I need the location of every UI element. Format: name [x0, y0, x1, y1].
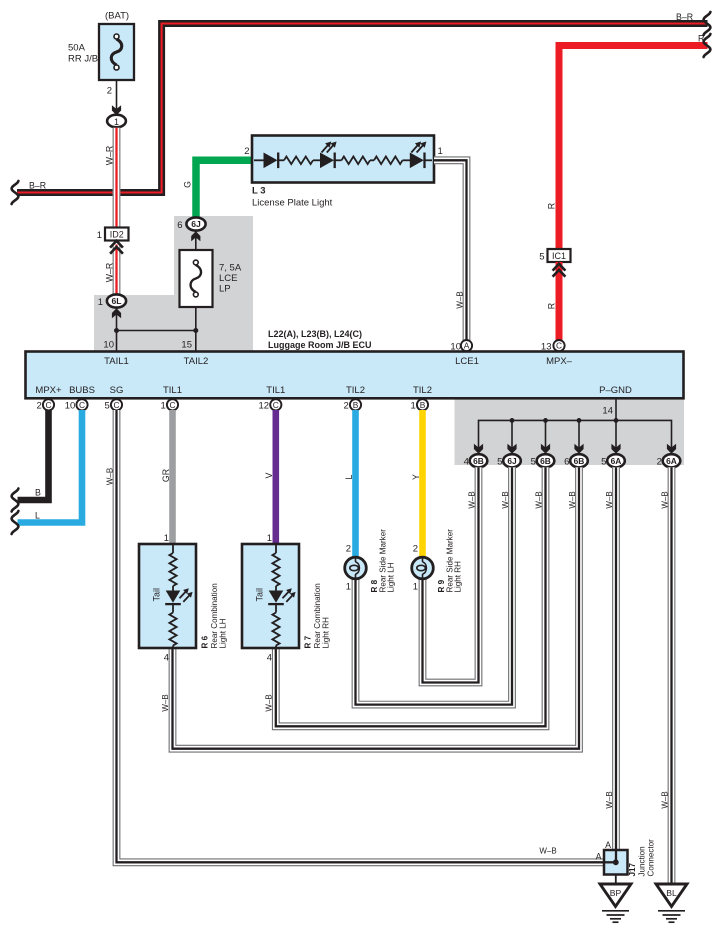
svg-text:2: 2: [344, 401, 349, 412]
svg-text:BUBS: BUBS: [69, 385, 95, 396]
svg-text:A: A: [605, 840, 611, 850]
svg-text:R: R: [698, 34, 704, 44]
svg-text:W–B: W–B: [501, 491, 510, 508]
svg-text:R 6: R 6: [201, 635, 210, 648]
svg-text:L: L: [344, 474, 354, 479]
svg-text:TIL2: TIL2: [413, 385, 432, 396]
svg-text:2: 2: [657, 457, 662, 468]
svg-text:W–B: W–B: [605, 491, 614, 508]
svg-text:10: 10: [103, 340, 114, 351]
svg-text:2: 2: [244, 146, 249, 157]
svg-text:LP: LP: [219, 284, 231, 295]
svg-text:Connector: Connector: [647, 839, 656, 877]
svg-text:1: 1: [164, 533, 169, 544]
svg-text:C: C: [273, 400, 279, 410]
svg-text:6L: 6L: [111, 296, 121, 306]
svg-text:6A: 6A: [666, 456, 677, 466]
svg-text:TIL2: TIL2: [346, 385, 365, 396]
svg-text:IC1: IC1: [552, 251, 566, 261]
svg-text:12: 12: [259, 401, 270, 412]
svg-text:W–B: W–B: [605, 791, 614, 808]
svg-text:BP: BP: [610, 888, 622, 898]
svg-text:50A: 50A: [68, 43, 86, 54]
svg-text:ID2: ID2: [110, 229, 124, 239]
svg-text:1: 1: [98, 297, 103, 308]
svg-text:C: C: [169, 400, 175, 410]
svg-text:R: R: [547, 303, 557, 309]
svg-text:W–B: W–B: [455, 291, 464, 308]
svg-text:L22(A), L23(B), L24(C): L22(A), L23(B), L24(C): [268, 329, 362, 339]
svg-text:1: 1: [411, 401, 416, 412]
svg-text:5: 5: [531, 457, 536, 468]
svg-text:W–B: W–B: [467, 491, 476, 508]
svg-text:Junction: Junction: [638, 846, 647, 876]
svg-text:5: 5: [601, 457, 606, 468]
svg-text:B–R: B–R: [29, 181, 46, 191]
svg-text:10: 10: [65, 401, 76, 412]
svg-text:7, 5A: 7, 5A: [219, 263, 242, 274]
svg-text:6B: 6B: [540, 456, 551, 466]
svg-text:LCE1: LCE1: [455, 356, 479, 367]
svg-text:Tail: Tail: [255, 588, 265, 602]
svg-text:1: 1: [267, 533, 272, 544]
svg-text:W–R: W–R: [105, 263, 115, 283]
svg-text:BL: BL: [666, 888, 677, 898]
svg-text:C: C: [556, 341, 562, 351]
svg-text:W–R: W–R: [105, 146, 115, 166]
svg-text:4: 4: [464, 457, 469, 468]
svg-text:J17: J17: [628, 862, 637, 876]
svg-text:6J: 6J: [191, 219, 201, 229]
svg-text:B: B: [35, 488, 41, 498]
svg-text:MPX+: MPX+: [35, 385, 62, 396]
svg-text:6J: 6J: [507, 456, 517, 466]
svg-text:W–B: W–B: [568, 491, 577, 508]
svg-text:L: L: [35, 511, 40, 521]
svg-text:W–B: W–B: [660, 491, 669, 508]
svg-text:5: 5: [105, 401, 110, 412]
svg-text:W–B: W–B: [534, 491, 543, 508]
svg-text:6A: 6A: [611, 456, 622, 466]
svg-text:TAIL1: TAIL1: [104, 356, 129, 367]
svg-text:15: 15: [181, 340, 192, 351]
svg-text:Light LH: Light LH: [387, 562, 396, 592]
svg-text:C: C: [45, 400, 51, 410]
svg-text:W–B: W–B: [660, 791, 669, 808]
svg-text:1: 1: [438, 146, 443, 157]
svg-text:B: B: [353, 400, 359, 410]
svg-text:1: 1: [346, 582, 351, 593]
svg-text:License Plate Light: License Plate Light: [252, 198, 333, 209]
svg-text:B–R: B–R: [676, 12, 693, 22]
svg-text:6: 6: [177, 220, 182, 231]
svg-text:1: 1: [97, 230, 102, 241]
svg-text:V: V: [264, 472, 274, 478]
svg-text:L 3: L 3: [252, 186, 266, 197]
svg-text:6B: 6B: [574, 456, 585, 466]
svg-text:Tail: Tail: [152, 588, 162, 602]
svg-text:4: 4: [267, 653, 272, 664]
svg-text:A: A: [464, 341, 470, 351]
svg-text:LCE: LCE: [219, 273, 237, 284]
svg-text:5: 5: [539, 252, 544, 263]
svg-text:5: 5: [497, 457, 502, 468]
svg-text:2: 2: [413, 544, 418, 555]
svg-text:SG: SG: [110, 385, 124, 396]
svg-text:Luggage Room J/B ECU: Luggage Room J/B ECU: [268, 340, 372, 350]
svg-text:A: A: [596, 851, 602, 861]
svg-text:RR J/B: RR J/B: [68, 54, 98, 65]
svg-text:14: 14: [602, 406, 613, 417]
svg-text:R 7: R 7: [304, 635, 313, 648]
svg-text:P–GND: P–GND: [599, 385, 632, 396]
svg-text:TAIL2: TAIL2: [184, 356, 209, 367]
svg-text:2: 2: [346, 544, 351, 555]
svg-text:C: C: [79, 400, 85, 410]
svg-text:Light RH: Light RH: [454, 561, 463, 593]
svg-text:Light LH: Light LH: [219, 618, 228, 648]
svg-text:6: 6: [564, 457, 569, 468]
svg-text:G: G: [183, 181, 193, 188]
svg-text:W–B: W–B: [265, 694, 274, 711]
svg-text:1: 1: [161, 401, 166, 412]
svg-text:R: R: [547, 203, 557, 209]
svg-text:W–B: W–B: [105, 468, 114, 485]
svg-text:MPX–: MPX–: [546, 356, 573, 367]
svg-text:TIL1: TIL1: [266, 385, 285, 396]
svg-text:4: 4: [164, 653, 169, 664]
svg-text:1: 1: [114, 117, 119, 127]
svg-text:W–B: W–B: [539, 846, 556, 855]
svg-text:(BAT): (BAT): [105, 11, 129, 22]
svg-text:6B: 6B: [473, 456, 484, 466]
svg-text:2: 2: [107, 86, 112, 97]
svg-text:Light RH: Light RH: [322, 617, 331, 649]
svg-text:B: B: [420, 400, 426, 410]
svg-text:TIL1: TIL1: [163, 385, 182, 396]
svg-text:1: 1: [413, 582, 418, 593]
svg-text:Y: Y: [411, 474, 421, 480]
svg-text:W–B: W–B: [161, 694, 170, 711]
svg-text:C: C: [113, 400, 119, 410]
svg-text:GR: GR: [161, 469, 171, 482]
svg-text:2: 2: [37, 401, 42, 412]
